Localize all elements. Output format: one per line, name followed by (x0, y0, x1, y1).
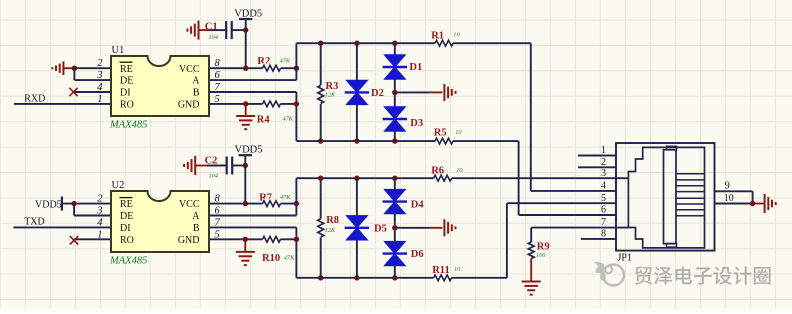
svg-text:1: 1 (97, 229, 102, 240)
svg-text:D2: D2 (371, 88, 384, 99)
svg-text:2: 2 (97, 194, 103, 205)
svg-text:VDD5: VDD5 (35, 199, 62, 210)
svg-text:104: 104 (209, 173, 218, 180)
svg-text:U2: U2 (112, 180, 125, 191)
svg-text:D4: D4 (411, 199, 425, 210)
svg-text:1: 1 (601, 145, 606, 156)
svg-text:JP1: JP1 (618, 253, 632, 264)
svg-text:47K: 47K (283, 115, 294, 122)
svg-text:8: 8 (215, 194, 221, 205)
svg-text:5: 5 (215, 229, 220, 240)
svg-text:2: 2 (97, 58, 103, 69)
svg-text:RE: RE (120, 199, 133, 210)
svg-text:TXD: TXD (24, 217, 45, 228)
svg-text:RXD: RXD (24, 93, 45, 104)
svg-text:VCC: VCC (179, 199, 200, 210)
svg-text:10: 10 (455, 129, 462, 136)
svg-text:D1: D1 (409, 62, 422, 73)
svg-text:R4: R4 (257, 114, 271, 125)
svg-text:GND: GND (178, 235, 200, 246)
svg-text:6: 6 (215, 206, 221, 217)
svg-text:10: 10 (456, 167, 463, 174)
svg-text:B: B (193, 223, 200, 234)
svg-text:A: A (192, 211, 200, 222)
svg-text:12K: 12K (325, 227, 336, 234)
svg-text:2: 2 (601, 157, 606, 168)
svg-text:DE: DE (120, 211, 133, 222)
svg-text:DE: DE (120, 76, 133, 87)
svg-text:DI: DI (120, 88, 131, 99)
svg-text:C1: C1 (205, 22, 218, 33)
svg-text:10: 10 (454, 266, 461, 273)
svg-text:4: 4 (97, 217, 103, 228)
svg-text:6: 6 (601, 205, 606, 216)
svg-text:12K: 12K (325, 92, 336, 99)
svg-text:7: 7 (601, 217, 606, 228)
svg-text:8: 8 (601, 229, 606, 240)
svg-text:R10: R10 (262, 253, 280, 264)
svg-text:7: 7 (215, 82, 221, 93)
svg-text:A: A (192, 76, 200, 87)
svg-text:6: 6 (215, 70, 221, 81)
svg-text:R5: R5 (434, 128, 447, 139)
svg-text:VDD5: VDD5 (235, 145, 263, 156)
svg-text:104: 104 (209, 34, 218, 41)
svg-text:D5: D5 (374, 223, 387, 234)
svg-text:VCC: VCC (179, 64, 200, 75)
svg-text:R8: R8 (326, 215, 339, 226)
svg-text:47K: 47K (284, 255, 295, 262)
svg-text:DI: DI (120, 223, 131, 234)
svg-text:47K: 47K (280, 57, 291, 64)
svg-text:RO: RO (120, 235, 134, 246)
svg-text:MAX485: MAX485 (109, 120, 147, 131)
svg-text:GND: GND (178, 100, 200, 111)
svg-text:RE: RE (120, 64, 133, 75)
svg-text:R9: R9 (537, 242, 550, 253)
svg-text:RO: RO (120, 100, 134, 111)
svg-text:47K: 47K (280, 194, 291, 201)
svg-text:3: 3 (96, 206, 102, 217)
svg-text:7: 7 (215, 217, 221, 228)
svg-text:9: 9 (725, 181, 730, 192)
svg-text:5: 5 (215, 94, 220, 105)
svg-text:R6: R6 (431, 166, 444, 177)
svg-text:10: 10 (453, 32, 460, 39)
svg-text:C2: C2 (205, 155, 218, 166)
svg-text:U1: U1 (112, 45, 125, 56)
svg-text:1: 1 (97, 94, 102, 105)
svg-text:10: 10 (724, 193, 734, 204)
svg-text:D6: D6 (411, 249, 424, 260)
svg-text:R3: R3 (326, 81, 339, 92)
svg-text:R11: R11 (432, 265, 450, 276)
svg-text:5: 5 (601, 193, 606, 204)
svg-text:100: 100 (536, 252, 546, 259)
svg-text:B: B (193, 88, 200, 99)
svg-text:4: 4 (601, 181, 606, 192)
svg-text:D3: D3 (410, 118, 423, 129)
svg-text:VDD5: VDD5 (234, 9, 262, 20)
svg-text:8: 8 (215, 58, 221, 69)
svg-text:R1: R1 (431, 30, 444, 41)
svg-text:4: 4 (97, 82, 103, 93)
svg-text:3: 3 (96, 70, 102, 81)
svg-text:MAX485: MAX485 (109, 256, 147, 267)
svg-text:3: 3 (601, 168, 606, 179)
